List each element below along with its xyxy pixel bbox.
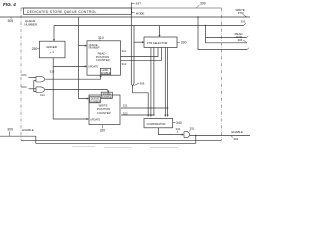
adder 250 — [40, 41, 66, 58]
frame (dedicated store queue control 300) — [21, 7, 222, 9]
svg-text:NUMBER: NUMBER — [89, 47, 100, 50]
wire line A drop to counters — [79, 17, 87, 99]
svg-text:COUNTER: COUNTER — [97, 111, 111, 115]
wire 312 RPC out to selector — [121, 48, 162, 61]
svg-text:PTR SELECTOR: PTR SELECTOR — [147, 41, 168, 45]
queue number sub-box — [90, 97, 101, 103]
node 330 label — [177, 41, 180, 43]
wire comparator output — [159, 128, 182, 135]
wire read ptr bracket from line A — [198, 17, 247, 50]
wire gate2 output to store enable — [45, 90, 108, 92]
svg-text:CK2: CK2 — [21, 85, 27, 89]
wire mode to selector left — [134, 41, 142, 43]
svg-text:305: 305 — [8, 19, 14, 23]
wire queue number line A — [0, 16, 250, 18]
wire bracket from line B — [206, 26, 248, 43]
svg-text:309: 309 — [7, 128, 13, 132]
svg-text:250: 250 — [32, 47, 38, 51]
svg-text:304: 304 — [238, 38, 243, 42]
svg-text:340: 340 — [176, 121, 182, 125]
svg-text:313: 313 — [50, 69, 55, 73]
scan smudge — [72, 146, 178, 149]
svg-text:FIG. 4: FIG. 4 — [3, 2, 16, 7]
wire 322 WPC out — [121, 114, 154, 116]
write position counter 320 — [89, 95, 120, 125]
comparator 340 — [144, 119, 173, 128]
node 340 label — [173, 121, 176, 123]
svg-text:UPDATE: UPDATE — [88, 65, 98, 68]
wire adder output to RPC update — [53, 58, 86, 119]
wire enable input 309 — [0, 136, 196, 144]
svg-text:310: 310 — [98, 36, 104, 40]
wire line B — [54, 25, 244, 27]
wire selector out right pair — [164, 48, 166, 115]
svg-text:303: 303 — [241, 19, 246, 23]
svg-text:COMPARATOR: COMPARATOR — [147, 122, 166, 126]
svg-text:312: 312 — [122, 62, 127, 66]
wire 306 to comparator — [133, 86, 149, 115]
svg-text:320: 320 — [100, 128, 106, 132]
load enable sub-box — [100, 68, 110, 74]
svg-text:DEDICATED STORE QUEUE CONTROL: DEDICATED STORE QUEUE CONTROL — [27, 10, 97, 14]
svg-text:306: 306 — [140, 81, 145, 85]
svg-text:321: 321 — [123, 103, 128, 107]
svg-text:314: 314 — [40, 93, 45, 97]
init mode vertical — [130, 3, 132, 84]
store enable sub-box — [101, 92, 112, 98]
gate 351 enable — [184, 132, 190, 138]
svg-text:+ 1: + 1 — [50, 50, 55, 54]
svg-text:330: 330 — [181, 41, 187, 45]
wire line B to selector top — [159, 26, 161, 36]
svg-text:NUMBER: NUMBER — [24, 22, 37, 26]
svg-text:ENABLE: ENABLE — [232, 130, 243, 134]
wire 321 WPC out — [121, 107, 168, 109]
svg-text:300: 300 — [200, 2, 206, 6]
svg-text:ENABLE: ENABLE — [102, 96, 112, 99]
svg-text:311: 311 — [122, 49, 127, 53]
wire line B drop to adder — [53, 26, 55, 40]
selector 330 — [144, 37, 177, 48]
svg-text:322: 322 — [123, 111, 128, 115]
title box — [24, 8, 132, 14]
svg-text:ADDER: ADDER — [46, 45, 58, 49]
svg-text:COUNTER: COUNTER — [96, 58, 110, 62]
read position counter 310 — [87, 41, 121, 75]
svg-text:ENABLE: ENABLE — [101, 72, 111, 75]
svg-text:MODE: MODE — [136, 11, 145, 15]
wire 311 RPC out to selector — [121, 48, 159, 57]
svg-text:341: 341 — [176, 127, 181, 131]
wire update branch down to WPC — [87, 118, 89, 120]
svg-text:302: 302 — [233, 137, 238, 141]
junction dots — [197, 16, 198, 17]
svg-text:ENABLE: ENABLE — [22, 128, 33, 132]
wire init/mode pair down — [133, 26, 135, 84]
svg-text:INIT: INIT — [136, 1, 142, 5]
svg-text:CK1: CK1 — [21, 73, 27, 77]
wire gate1 output to RPC load — [45, 76, 100, 79]
svg-text:UPDATE: UPDATE — [90, 119, 100, 122]
wire gate output enable 302 — [190, 135, 250, 137]
wire selector out left pair — [150, 48, 152, 115]
